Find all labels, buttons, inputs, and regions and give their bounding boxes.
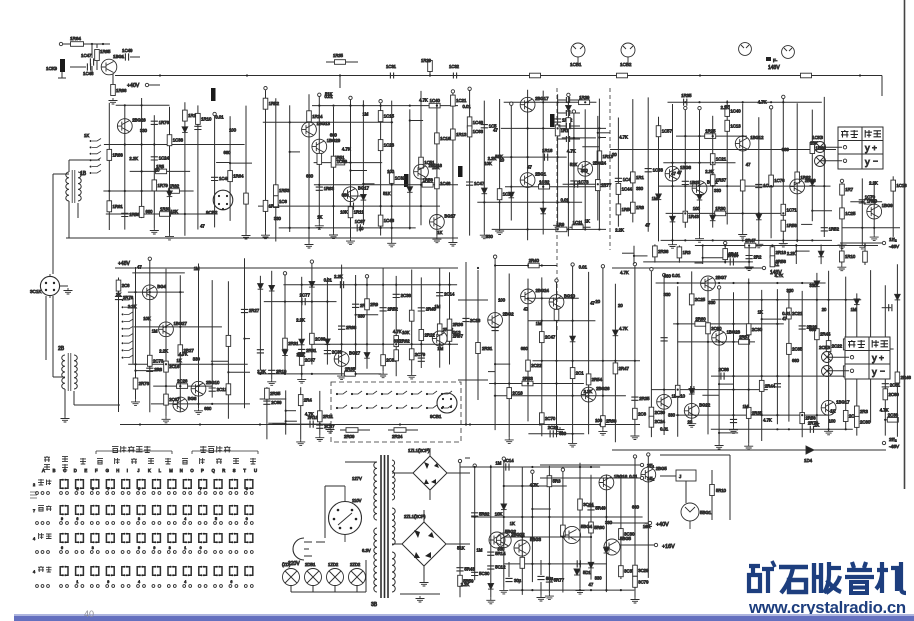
terminal: [349, 96, 352, 99]
junction: [811, 210, 813, 212]
ground: [131, 399, 140, 405]
junction: [311, 373, 313, 375]
resistor 2C60: [706, 323, 711, 334]
svg-text:5BG4: 5BG4: [581, 524, 593, 529]
svg-text:1K: 1K: [814, 423, 819, 428]
capacitor 1C3x: [566, 97, 569, 103]
svg-text:680: 680: [632, 505, 640, 510]
wire: [841, 183, 843, 243]
capacitor 5C56: [577, 560, 580, 567]
svg-text:100: 100: [387, 169, 395, 174]
contact state dots row 4 col 3: [90, 585, 93, 588]
terminal: [502, 457, 505, 460]
capacitor 1C87: [357, 224, 360, 231]
junction: [579, 466, 581, 468]
svg-text:2C47: 2C47: [545, 335, 556, 340]
resistor 1C22: [497, 189, 502, 200]
resistor 1R64: [228, 171, 233, 182]
svg-text:330: 330: [581, 168, 589, 173]
contact state dots row 3 col 11: [214, 551, 217, 554]
wire: [663, 277, 665, 435]
resistor 1C7: [740, 180, 745, 191]
capacitor 5R82: [471, 513, 478, 516]
resistor 5R65: [561, 525, 566, 536]
resistor 2C2: [843, 366, 848, 377]
wire: [856, 293, 858, 435]
wire: [92, 43, 110, 45]
junction: [420, 205, 422, 207]
capacitor 5C30: [471, 572, 478, 575]
terminal: [782, 95, 785, 98]
wire: [796, 103, 798, 242]
diode 1C85: [182, 127, 188, 133]
regulator tube 5CB1: [681, 503, 699, 529]
wire: [656, 282, 826, 284]
wire: [291, 591, 357, 593]
relay box: [676, 470, 696, 481]
wire: [68, 201, 70, 238]
svg-text:2C79: 2C79: [415, 352, 426, 357]
junction: [366, 284, 368, 286]
diode 2C63: [299, 339, 305, 345]
diode 2R88: [895, 294, 901, 300]
svg-text:9: 9: [107, 580, 109, 584]
terminal: [717, 286, 720, 289]
capacitor 2C37: [316, 425, 323, 428]
wire: [504, 101, 597, 103]
svg-text:J: J: [137, 468, 139, 473]
switch contact row 1 col 12: [230, 480, 232, 489]
junction: [439, 284, 441, 286]
junction: [153, 143, 155, 145]
svg-text:2R9: 2R9: [370, 302, 378, 307]
wire: [314, 184, 458, 186]
contact state dots row 4 col 7: [152, 585, 155, 588]
svg-text:1M: 1M: [435, 304, 441, 309]
wire: [501, 127, 606, 129]
resistor 2R67: [447, 330, 452, 341]
svg-text:1C47: 1C47: [474, 181, 485, 186]
resistor 1C25: [840, 208, 845, 219]
wire: [828, 271, 830, 429]
junction: [259, 423, 261, 425]
junction: [541, 297, 543, 299]
wire: [263, 121, 393, 123]
switch contact row 2 col 5: [122, 506, 124, 515]
label 148V supply: [766, 57, 771, 61]
wire: [459, 463, 461, 597]
svg-text:2C37: 2C37: [324, 424, 335, 429]
junction: [776, 375, 778, 377]
svg-text:20: 20: [688, 419, 693, 424]
junction: [301, 284, 303, 286]
watermark char kuang: [749, 566, 760, 591]
resistor 3C29: [633, 565, 638, 576]
svg-text:2.2K: 2.2K: [461, 582, 470, 587]
terminal 2E2: [882, 441, 885, 444]
junction: [380, 205, 382, 207]
svg-text:47: 47: [746, 162, 751, 167]
wire: [695, 262, 703, 264]
resistor 2C67: [164, 394, 169, 405]
tube socket 9CB2: [213, 190, 233, 210]
capacitor 2C81: [882, 384, 889, 387]
resistor 2R12: [437, 324, 442, 335]
svg-text:51K: 51K: [457, 546, 465, 551]
svg-text:330: 330: [714, 188, 722, 193]
junction: [557, 156, 559, 158]
svg-text:10K: 10K: [484, 161, 492, 166]
svg-text:5: 5: [215, 517, 217, 521]
svg-text:1BG12: 1BG12: [750, 135, 764, 140]
switch contact row 1 col 1: [60, 480, 62, 489]
svg-text:330: 330: [809, 283, 817, 288]
svg-text:1C16: 1C16: [440, 136, 451, 141]
contact state dots row 4 col 8: [167, 585, 170, 588]
capacitor 5R14: [487, 552, 494, 555]
connector 2CK4: [404, 174, 409, 187]
junction: [527, 228, 529, 230]
junction: [341, 343, 343, 345]
svg-text:4: 4: [138, 580, 140, 584]
wire: [801, 223, 812, 225]
junction: [391, 121, 393, 123]
junction: [579, 589, 581, 591]
junction: [856, 299, 858, 301]
svg-text:100: 100: [829, 419, 837, 424]
switch contact row 3 col 12: [230, 534, 232, 543]
contact state dots row 4 col 6: [137, 585, 140, 588]
svg-text:1M: 1M: [477, 548, 483, 553]
junction: [531, 485, 533, 487]
junction: [557, 127, 559, 129]
svg-text:2.2K: 2.2K: [296, 318, 305, 323]
diode 1R78: [810, 180, 816, 186]
junction: [698, 101, 700, 103]
ground: [556, 427, 565, 433]
wire: [380, 103, 382, 235]
svg-text:47: 47: [671, 171, 676, 176]
svg-text:330: 330: [274, 216, 282, 221]
transformer 1B: [71, 170, 73, 203]
resistor 2R57: [739, 340, 750, 345]
switch contact row 3 col 3: [91, 534, 93, 543]
terminal: [148, 257, 151, 260]
svg-text:2BG2: 2BG2: [503, 312, 515, 317]
junction: [712, 239, 714, 241]
resistor 1R3: [677, 247, 682, 258]
wire: [719, 432, 738, 434]
svg-text:+40V: +40V: [656, 522, 669, 528]
junction: [227, 371, 229, 373]
junction: [246, 74, 248, 76]
wire: [490, 465, 492, 598]
wire: [136, 370, 160, 372]
connector 1CK9: [60, 59, 65, 72]
contact state dots row 2 col 7: [152, 522, 155, 525]
switch contact: [383, 391, 392, 408]
capacitor 2C38: [393, 294, 400, 297]
svg-text:5BG1: 5BG1: [700, 510, 712, 515]
wire ground bus: [120, 424, 640, 426]
junction: [521, 516, 523, 518]
junction: [355, 314, 357, 316]
svg-text:0.01: 0.01: [660, 426, 669, 431]
junction: [557, 201, 559, 203]
wire: [245, 338, 251, 340]
resistor 2R56: [770, 256, 775, 267]
wire: [429, 60, 431, 76]
resistor 1R22: [263, 200, 268, 211]
junction: [469, 423, 471, 425]
resistor 2R35: [344, 372, 355, 377]
diode 2R64: [613, 330, 619, 336]
resistor 2R46: [895, 372, 900, 383]
svg-text:20: 20: [359, 226, 364, 231]
svg-text:1C15: 1C15: [384, 114, 395, 119]
row 1 left dots: [36, 492, 39, 495]
svg-text:1R35: 1R35: [333, 53, 344, 58]
ground: [553, 223, 562, 229]
junction: [108, 190, 110, 192]
resistor 2R38: [653, 246, 658, 257]
connector 2CK3: [211, 88, 216, 101]
svg-text:+40V: +40V: [127, 83, 140, 89]
resistor 2R40: [528, 263, 539, 268]
wire: [70, 66, 86, 68]
switch table header brace 1: [96, 451, 172, 454]
junction: [301, 373, 303, 375]
svg-text:1R77: 1R77: [601, 183, 612, 188]
transistor 1BG29: [312, 139, 327, 154]
resistor 1R9: [556, 227, 567, 232]
svg-text:1R1: 1R1: [636, 175, 644, 180]
junction: [801, 282, 803, 284]
junction: [531, 508, 533, 510]
table header text: [841, 130, 849, 138]
junction: [243, 338, 245, 340]
switch contact row 4 col 4: [106, 567, 108, 576]
svg-text:2.2K: 2.2K: [584, 389, 593, 394]
junction: [332, 105, 334, 107]
svg-text:1M: 1M: [363, 112, 369, 117]
svg-text:1C40: 1C40: [730, 108, 741, 113]
resistor 2R36: [447, 319, 452, 330]
switch contact row 3 col 2: [76, 534, 78, 543]
svg-text:2CK6: 2CK6: [819, 345, 831, 350]
junction: [527, 382, 529, 384]
switch contact row 4 col 9: [183, 567, 185, 576]
svg-text:1C6: 1C6: [279, 199, 287, 204]
wire: [301, 277, 303, 377]
junction: [289, 121, 291, 123]
junction: [391, 205, 393, 207]
svg-text:0.01: 0.01: [463, 104, 472, 109]
svg-text:1C32: 1C32: [395, 175, 406, 180]
contact state dots row 2 col 11: [214, 522, 217, 525]
table frame: [845, 337, 890, 379]
wire: [211, 360, 229, 362]
svg-text:0: 0: [200, 546, 202, 550]
svg-text:BG22: BG22: [699, 402, 711, 407]
resistor 2C22: [526, 360, 531, 371]
svg-text:680: 680: [224, 150, 232, 155]
wire: [505, 186, 606, 188]
switch contact row 2 col 4: [106, 506, 108, 515]
contact state dots row 4 col 4: [106, 585, 109, 588]
svg-text:1C38: 1C38: [173, 138, 184, 143]
wire: [617, 118, 619, 227]
junction: [399, 423, 401, 425]
svg-text:1B: 1B: [80, 171, 87, 177]
wire: [449, 272, 451, 364]
tube 1CB2: [621, 43, 635, 63]
resistor 2C60: [883, 389, 888, 400]
resistor 1C21: [710, 154, 715, 165]
wire: [60, 285, 68, 287]
ground: [64, 288, 73, 294]
junction: [165, 363, 167, 365]
junction: [318, 105, 320, 107]
transistor 1BG9: [867, 204, 882, 219]
resistor 1R43: [683, 211, 688, 222]
transistor 1BG12: [735, 136, 750, 151]
svg-text:100: 100: [498, 298, 506, 303]
diode 2R69: [854, 299, 860, 305]
switch contact: [368, 391, 377, 408]
ground: [545, 594, 554, 600]
ground: [598, 429, 607, 435]
junction: [590, 589, 592, 591]
wire: [124, 105, 126, 230]
svg-text:2C26: 2C26: [177, 379, 188, 384]
diode 2C37: [309, 282, 315, 288]
resistor 1C89: [331, 156, 336, 167]
svg-text:6: 6: [61, 546, 63, 550]
junction: [861, 227, 863, 229]
junction: [804, 74, 806, 76]
wire: [654, 244, 656, 262]
ground: [687, 421, 696, 427]
capacitor 1C3x: [566, 123, 569, 129]
junction: [420, 184, 422, 186]
wire: [729, 455, 731, 520]
wire: [632, 99, 634, 222]
wire: [562, 137, 596, 139]
svg-text:0: 0: [246, 487, 248, 491]
socket 2CK7: [822, 366, 833, 377]
wire: [460, 466, 600, 468]
switch contact row 1 col 6: [137, 480, 139, 489]
ground: [537, 595, 546, 601]
switch contact row 2 col 13: [245, 506, 247, 515]
wire: [153, 385, 212, 387]
wire bus +48V: [115, 267, 458, 269]
svg-text:1K: 1K: [585, 219, 590, 224]
junction: [845, 428, 847, 430]
resistor 1C44: [616, 183, 621, 194]
ground: [305, 242, 314, 248]
junction: [605, 589, 607, 591]
svg-text:2C69: 2C69: [271, 400, 282, 405]
svg-text:4.7K: 4.7K: [619, 135, 628, 140]
wire: [134, 326, 222, 328]
svg-text:3C1K: 3C1K: [30, 289, 42, 294]
junction: [712, 185, 714, 187]
wire: [230, 162, 252, 164]
row 3 left dots: [36, 551, 39, 554]
svg-text:47: 47: [589, 582, 594, 587]
svg-text:5C12: 5C12: [495, 565, 506, 570]
ground: [420, 580, 429, 586]
ground: [486, 598, 495, 604]
junction: [542, 127, 544, 129]
contact state dots row 2 col 4: [106, 522, 109, 525]
row 2 left labels: [38, 506, 44, 511]
terminal: [633, 262, 636, 265]
svg-text:P: P: [201, 468, 204, 473]
resistor 2C58: [554, 309, 559, 320]
resistor 2R4: [298, 395, 303, 406]
svg-text:1M: 1M: [437, 346, 443, 351]
terminal: [787, 289, 790, 292]
resistor 1R8: [631, 202, 636, 213]
junction: [788, 375, 790, 377]
ground: [296, 439, 305, 445]
svg-text:2C25: 2C25: [695, 297, 706, 302]
svg-text:47: 47: [645, 223, 650, 228]
svg-text:2.2K: 2.2K: [334, 274, 343, 279]
wire: [508, 274, 510, 438]
wire: [286, 420, 297, 422]
junction: [602, 360, 604, 362]
switch contact row 1 col 5: [122, 480, 124, 489]
svg-text:5BG3: 5BG3: [530, 537, 542, 542]
wire: [842, 227, 900, 229]
contact state dots row 1 col 1: [60, 492, 63, 495]
switch contact row 4 col 8: [168, 567, 170, 576]
resistor 1R30: [715, 211, 726, 216]
capacitor 2R61: [298, 349, 305, 352]
junction: [776, 414, 778, 416]
svg-text:2R47: 2R47: [745, 238, 756, 243]
wire: [677, 341, 755, 343]
wire: [52, 296, 54, 377]
resistor 2C26: [177, 384, 188, 389]
junction: [567, 201, 569, 203]
wire: [258, 373, 382, 375]
svg-text:51K: 51K: [383, 191, 391, 196]
voltage selector switch: [325, 486, 362, 542]
junction: [684, 185, 686, 187]
junction: [420, 343, 422, 345]
switch contact row 3 col 7: [153, 534, 155, 543]
junction: [318, 227, 320, 229]
resistor 1C70: [864, 200, 875, 205]
wire: [77, 203, 79, 218]
svg-text:0.01: 0.01: [215, 115, 224, 120]
resistor 1R13: [451, 129, 456, 140]
transistor 1BG10: [657, 394, 672, 409]
resistor 2C30: [649, 407, 654, 418]
svg-text:1R52: 1R52: [829, 227, 840, 232]
wire: [719, 383, 733, 385]
junction: [329, 423, 331, 425]
junction: [531, 466, 533, 468]
wire: [395, 276, 397, 376]
svg-text:1R64: 1R64: [233, 174, 244, 179]
table header text: [848, 340, 856, 348]
